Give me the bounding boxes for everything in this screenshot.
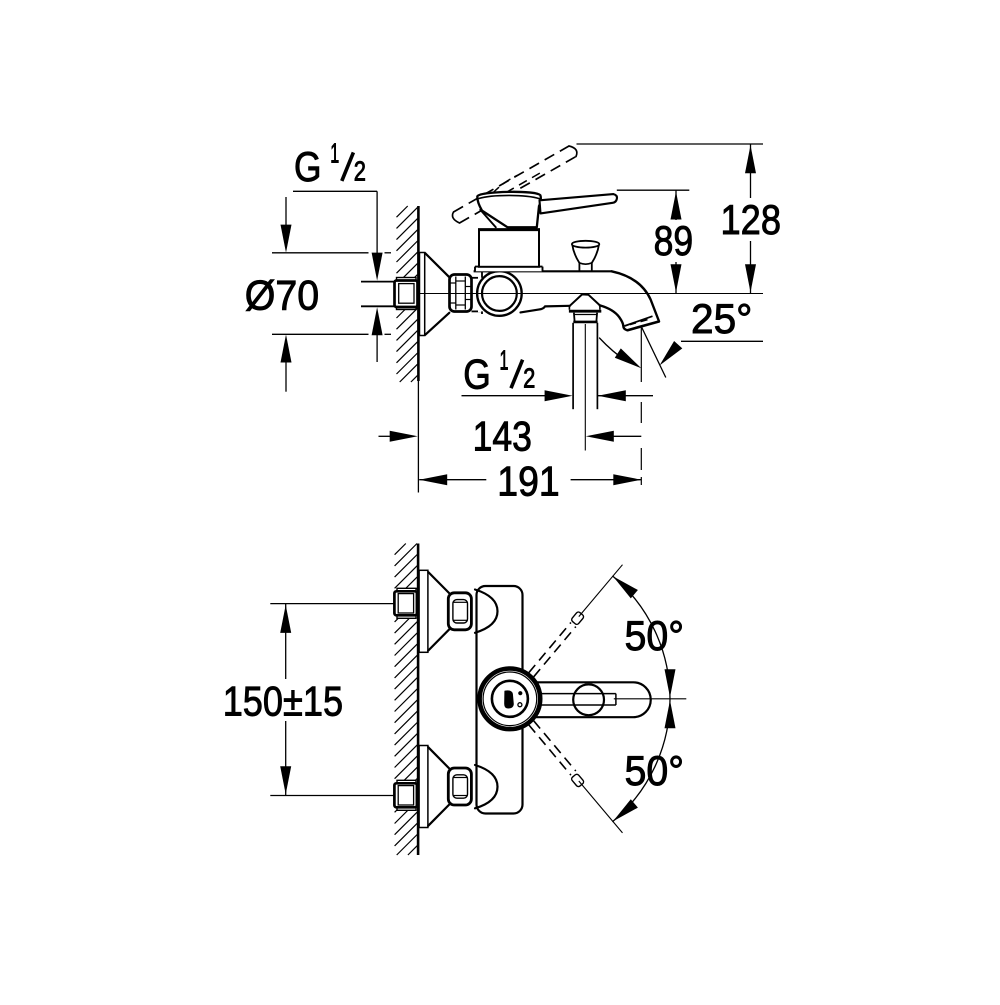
25 degree swing arc <box>600 338 642 368</box>
pipe centre line <box>584 324 586 451</box>
svg-text:Ø70: Ø70 <box>245 272 319 319</box>
dashed lever swung up 50 <box>529 565 623 677</box>
centre line (side view) <box>418 293 763 295</box>
dimension 150 plus minus 15 <box>223 604 343 796</box>
cartridge keyway mark <box>505 691 513 708</box>
svg-text:25°: 25° <box>691 295 752 342</box>
wall hatching (front view) <box>395 544 418 856</box>
dimension 128 <box>721 144 782 294</box>
cartridge dot upper <box>519 692 522 695</box>
extension line at lever top <box>617 189 690 191</box>
label 50 degrees upper <box>625 612 685 659</box>
handle dome cap (side view) <box>477 192 541 227</box>
wall face line (front view) <box>417 544 420 856</box>
upper wall union (front view) <box>394 570 471 652</box>
cartridge flange <box>475 267 543 272</box>
diverter pull knob <box>572 241 599 271</box>
spout (side view) <box>600 271 659 330</box>
leader line G 1/2 top <box>293 191 383 362</box>
shower outlet pipe G1/2 <box>573 323 597 409</box>
wall hatching (side view) <box>397 206 418 382</box>
mixer body (front view) <box>477 586 523 814</box>
arc 50 degrees upper <box>613 576 676 699</box>
svg-text:2: 2 <box>354 155 366 186</box>
oblique 25 degree line <box>641 327 666 378</box>
svg-text:143: 143 <box>473 412 532 459</box>
lever handle (side view) <box>540 194 618 213</box>
inlet neck <box>472 278 483 312</box>
upper inlet boss curve <box>475 590 498 633</box>
svg-text:G: G <box>294 143 322 190</box>
valve body circle inner (side view) <box>482 276 517 311</box>
lever handle (front view) <box>534 682 651 717</box>
label G 1/2 (wall connection) <box>294 137 366 190</box>
extension line at raised lever tip <box>577 143 764 145</box>
svg-text:1: 1 <box>500 345 509 376</box>
svg-text:89: 89 <box>654 217 694 264</box>
dimension G1/2 pipe <box>462 390 654 401</box>
cartridge housing <box>478 230 540 267</box>
dashed lever swung down 50 <box>529 721 623 833</box>
centre line (front view) <box>614 698 687 700</box>
mixer body (side view) <box>474 271 612 314</box>
svg-text:50°: 50° <box>625 747 685 794</box>
cartridge circle inner (front view) <box>492 681 528 717</box>
extension lines 150 <box>270 604 394 796</box>
lower inlet boss curve <box>475 765 498 808</box>
handle hub circle (front view) <box>573 684 604 715</box>
svg-text:150±15: 150±15 <box>223 677 343 724</box>
svg-text:1: 1 <box>330 137 339 168</box>
leader 25 degrees <box>660 341 764 366</box>
label 25 degrees <box>691 295 752 342</box>
extension lines Ø70 <box>272 253 391 334</box>
shower outlet nut <box>573 313 597 322</box>
wall face line (side view) <box>417 206 420 493</box>
dimension 89 <box>654 190 694 293</box>
dimension Ø70 arrows <box>281 197 292 392</box>
lower wall union (front view) <box>394 746 471 828</box>
label Ø70 <box>245 272 319 319</box>
shower outlet boss <box>569 294 601 311</box>
cartridge dot lower <box>518 703 522 707</box>
svg-text:191: 191 <box>497 457 559 504</box>
dashed raised lever (side view) <box>452 146 576 223</box>
svg-text:2: 2 <box>523 362 535 393</box>
dimension 191 <box>419 457 641 504</box>
svg-text:128: 128 <box>721 196 782 243</box>
valve circle middle (front view) <box>483 672 537 726</box>
hex connection nut (side view) <box>450 275 472 312</box>
spout aerator face <box>625 316 659 330</box>
valve body circle outer (side view) <box>477 271 522 316</box>
pipe stub G1/2 through wall <box>361 282 395 307</box>
square union fitting (side view) <box>395 278 418 310</box>
arc 50 degrees lower <box>613 699 676 822</box>
label G 1/2 (shower outlet) <box>463 345 535 398</box>
escutcheon cone (side view) <box>425 253 449 335</box>
vertical reference line at spout tip <box>640 328 642 485</box>
escutcheon plate (side view) <box>420 253 425 336</box>
svg-text:G: G <box>463 350 491 397</box>
valve escutcheon circle outer (front view) <box>480 669 541 730</box>
label 50 degrees lower <box>625 747 685 794</box>
svg-text:50°: 50° <box>625 612 685 659</box>
dimension 143 <box>379 412 642 459</box>
